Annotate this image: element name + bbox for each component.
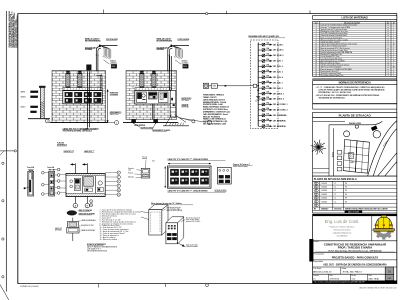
wall 1 secondary conduit <box>99 75 101 90</box>
main breaker on input <box>253 84 256 87</box>
svg-text:R4: R4 <box>315 198 317 200</box>
svg-text:AND2014-1534.03: AND2014-1534.03 <box>313 271 332 274</box>
breaker row 7 (CIR. TUG. 4) <box>258 74 284 79</box>
svg-text:CIR. TUE. 2: CIR. TUE. 2 <box>273 88 283 90</box>
svg-text:Escala:: Escala: <box>352 275 357 277</box>
svg-text:10: 10 <box>315 44 317 46</box>
normas text lines <box>315 86 385 99</box>
numero row divider <box>313 266 397 268</box>
svg-text:CIR. CHUV. 2: CIR. CHUV. 2 <box>273 99 284 101</box>
bundle label leader <box>175 60 181 64</box>
svg-text:LC: LC <box>334 201 336 203</box>
map top street lines <box>313 120 345 122</box>
svg-text:LOTE: LOTE <box>350 162 354 164</box>
svg-text:17: 17 <box>315 58 317 60</box>
logo vertical divider <box>371 216 373 241</box>
top fold tick 1 <box>103 10 105 14</box>
svg-text:ASS. DUT. - ENTRADA DE ENERG: ASS. DUT. - ENTRADA DE ENERGIA DA CONCES… <box>323 264 387 267</box>
svg-text:cadeado: cadeado <box>142 158 147 160</box>
massa de vedacao ellipse <box>67 211 77 216</box>
black side stripe <box>309 239 313 262</box>
svg-text:CIR. RESERVA: CIR. RESERVA <box>273 119 287 122</box>
svg-text:vb: vb <box>387 65 389 67</box>
ground tap from bus <box>257 87 259 97</box>
map small circle <box>355 125 358 128</box>
wall 2 mast base column <box>170 90 176 117</box>
svg-text:22: 22 <box>315 69 317 71</box>
caixa de passagem stack detail <box>72 218 74 241</box>
svg-text:PLANTA DE SITUACAO: PLANTA DE SITUACAO <box>339 113 372 117</box>
lista table outer box <box>313 21 397 76</box>
svg-text:UNID. REAL.: UNID. REAL. <box>368 278 380 281</box>
logo helmet gear (grey) <box>373 219 394 239</box>
svg-text:11: 11 <box>315 46 317 48</box>
revision banner row <box>313 209 397 211</box>
plan cut balloon B <box>85 203 89 207</box>
wall 2 base leader balloon <box>176 117 192 122</box>
section cap <box>39 86 45 88</box>
caixa externo left dim <box>164 166 166 187</box>
svg-text:LC: LC <box>334 183 336 185</box>
lista table rows <box>313 24 397 77</box>
svg-text:3x16mm: 3x16mm <box>182 61 189 63</box>
isometric box 1 hidden lines <box>151 211 160 213</box>
tampa detail slots (black) <box>219 175 224 178</box>
breaker row 16 (CIR. RESERVA) <box>258 123 286 128</box>
wall 1 bottom-right balloon <box>91 122 115 124</box>
wire drip loop bundle <box>173 46 175 57</box>
svg-text:CIR. CHUV. 1: CIR. CHUV. 1 <box>273 93 284 95</box>
svg-text:CIR. TUG. 1: CIR. TUG. 1 <box>273 61 283 63</box>
map north star / tree symbol <box>311 140 326 155</box>
attachment point (node) <box>170 45 172 47</box>
svg-text:23: 23 <box>315 71 317 73</box>
map building mark (black) <box>371 125 378 131</box>
planta de situacao header <box>313 112 397 117</box>
bundle label leader <box>104 60 110 64</box>
map roundabout circle 2 <box>373 131 380 138</box>
wall 2 mast base legs <box>166 115 172 126</box>
unifilar dashed enclosure <box>250 40 278 129</box>
svg-text:Tijolo macico comum 5x10x20cm: Tijolo macico comum 5x10x20cm <box>321 67 343 69</box>
service mast conduit <box>167 55 169 72</box>
plan comp 3 interior <box>98 181 102 185</box>
svg-text:CIR. ILUM. 1: CIR. ILUM. 1 <box>273 44 284 46</box>
svg-text:PROJETO BASICO - PARA CONS: PROJETO BASICO - PARA CONSULTA <box>332 256 379 260</box>
svg-text:1:50: 1:50 <box>352 279 356 281</box>
svg-text:2: 2 <box>47 121 48 123</box>
svg-text:CIR. RESERVA: CIR. RESERVA <box>273 125 287 128</box>
plan cut balloon A <box>73 203 77 207</box>
empty spacer box <box>313 104 397 109</box>
svg-text:CIR. TUE. 1: CIR. TUE. 1 <box>273 82 283 84</box>
svg-text:Dobradica: Dobradica <box>128 177 134 179</box>
wall 1 post caps <box>66 71 69 73</box>
svg-text:Parafuso: Parafuso <box>128 173 133 175</box>
caixa externo body <box>168 166 212 188</box>
map roundabout circle 1 <box>344 131 350 137</box>
isometric box 2 vent holes <box>168 225 170 226</box>
svg-text:(11) 4799-0000: (11) 4799-0000 <box>337 235 348 237</box>
plan right balloons <box>117 171 120 174</box>
svg-text:21: 21 <box>315 67 317 69</box>
wall 1 bottom-left balloon <box>45 119 49 123</box>
weatherhead (curved mast top) <box>168 47 173 57</box>
svg-text:kg: kg <box>387 62 389 64</box>
mureta section detail (corte) <box>39 87 41 119</box>
svg-text:Desenho:: Desenho: <box>313 275 320 277</box>
svg-text:CIR. ILUM. 3: CIR. ILUM. 3 <box>273 55 284 57</box>
svg-text:CIR. AR COND. 2: CIR. AR COND. 2 <box>273 109 288 112</box>
isometric box 2 <box>166 217 184 223</box>
cable tag <box>183 64 189 68</box>
plan view of caixas (top view) <box>66 174 105 197</box>
svg-text:CIR. TUG. 4: CIR. TUG. 4 <box>273 76 284 79</box>
wall 1 conduit below panel to ground <box>87 104 89 127</box>
map lot number boxes <box>337 151 342 155</box>
breaker row 9 (CIR. TUE. 2) <box>258 85 282 90</box>
plan compartment dividers <box>81 176 83 193</box>
wall 2 caixa middle compartment (barramento) <box>148 92 157 99</box>
wire to utility network <box>101 45 118 47</box>
map diagonal road bottom-right <box>378 153 397 176</box>
svg-text:R2: R2 <box>315 190 317 192</box>
tampa small detail left <box>141 168 150 178</box>
svg-text:CIR. TUG. 3: CIR. TUG. 3 <box>273 72 283 74</box>
wall 1 caixa window cells <box>65 92 73 97</box>
revision table columns <box>319 181 321 210</box>
binding hole 2 <box>2 200 4 202</box>
breaker row 4 (CIR. TUG. 1) <box>258 58 283 63</box>
svg-text:R6: R6 <box>315 205 317 207</box>
sheet edge line <box>5 11 7 292</box>
corte B-B dim arrows <box>28 169 34 171</box>
svg-text:27/07/2016: 27/07/2016 <box>330 279 339 281</box>
wall 1 caixa panel <box>63 91 103 104</box>
plan cut arrow B <box>86 163 88 203</box>
svg-text:PVC 32mm: PVC 32mm <box>182 100 190 102</box>
wall 2 embedded conduit post B <box>152 74 156 88</box>
svg-text:15: 15 <box>315 54 317 56</box>
svg-text:ELETRODUTO: ELETRODUTO <box>182 98 193 100</box>
svg-text:24: 24 <box>315 73 317 75</box>
folha grey box 005 <box>385 275 394 281</box>
wall 2 right downpipe hatch base <box>170 123 171 126</box>
svg-text:LC: LC <box>334 190 336 192</box>
wall 1 embedded conduit post A (hatched) <box>66 74 70 88</box>
revision rows <box>313 182 397 207</box>
service mast conduit <box>95 55 97 72</box>
breaker row 1 (CIR. ILUM. 1) <box>258 42 283 47</box>
left center fold mark <box>0 150 14 152</box>
svg-text:FORMATO A1 (594x841): FORMATO A1 (594x841) <box>20 285 39 288</box>
revision note row <box>313 206 397 208</box>
wall 1 embedded conduit post B (hatched) <box>78 74 82 88</box>
cable tag <box>111 64 117 68</box>
svg-text:12: 12 <box>315 48 317 50</box>
lista bottom spacer bar <box>313 78 397 81</box>
svg-text:10: 10 <box>393 60 395 62</box>
numbered legend list <box>100 209 141 241</box>
map block inner verticals <box>349 140 350 171</box>
svg-text:10/05/16: 10/05/16 <box>321 198 327 200</box>
svg-text:1: 1 <box>116 122 117 124</box>
breaker row 12 (CIR. AR COND. 1) <box>258 102 287 107</box>
corte A-A inner cells <box>50 174 53 178</box>
svg-text:10: 10 <box>118 190 120 192</box>
binding hole 4 <box>2 276 4 278</box>
corte B-B inner hatch strip <box>29 180 31 192</box>
lista column header row <box>313 23 397 25</box>
breaker row 10 (CIR. CHUV. 1) <box>258 91 284 96</box>
rotated margin notes <box>8 10 19 48</box>
wall detail 1 (brick elevation with caixas) <box>52 71 106 123</box>
breaker row 2 (CIR. ILUM. 2) <box>258 47 283 52</box>
isometric left side arrows <box>141 212 149 214</box>
svg-text:10/01/16: 10/01/16 <box>321 183 327 185</box>
plan cut arrow A <box>74 163 76 203</box>
wire drip loop bundle <box>102 46 104 57</box>
corte A-A balloons left <box>41 171 44 174</box>
normas text box <box>313 84 397 103</box>
svg-text:R0: R0 <box>315 183 317 185</box>
svg-text:caixa: caixa <box>128 169 131 171</box>
tampa detail top vents <box>219 169 221 171</box>
corte B-B box <box>28 171 34 196</box>
svg-text:13: 13 <box>315 50 317 52</box>
breaker row 14 (CIR. TORNEIRA) <box>258 112 287 117</box>
breaker row 5 (CIR. TUG. 2) <box>258 63 283 68</box>
svg-text:Tampa cx. N e Tampa cx. T: Tampa cx. N e Tampa cx. T <box>233 164 250 166</box>
breaker row 8 (CIR. TUE. 1) <box>258 80 282 85</box>
lista table column lines <box>319 21 321 76</box>
svg-text:20: 20 <box>315 65 317 67</box>
top fold tick 2 <box>225 11 227 14</box>
caixa externo inner frame <box>169 167 210 187</box>
wall 2 embedded conduit post A <box>140 74 144 88</box>
plan left leader lines <box>60 174 66 176</box>
wall 1 service conduit (vertical) <box>87 71 89 104</box>
breaker row 6 (CIR. TUG. 3) <box>258 69 283 74</box>
section ground line <box>28 118 50 120</box>
svg-text:R3: R3 <box>315 194 317 196</box>
svg-text:Cidade:: Cidade: <box>342 268 347 270</box>
folha grey box 01 <box>385 267 394 275</box>
revision table box <box>313 181 397 213</box>
svg-text:kWh: kWh <box>213 86 216 88</box>
breaker row 15 (CIR. RESERVA) <box>258 118 286 123</box>
map road connector top <box>372 121 382 125</box>
map block 1 lot lines <box>344 146 356 147</box>
map block 2 <box>355 141 369 173</box>
title block thick top bar <box>313 214 397 283</box>
svg-text:LISTA DE MATERIAIS: LISTA DE MATERIAIS <box>342 16 369 20</box>
wall 1 ground stub elbow <box>84 127 88 129</box>
medidor symbol M <box>203 83 208 88</box>
wall detail 2 (brick elevation, internal view) <box>126 71 177 120</box>
svg-text:CIR. TUG. 2: CIR. TUG. 2 <box>273 66 283 68</box>
top fold tick 3 <box>309 10 311 13</box>
desenho row divider <box>313 273 386 275</box>
wall 1 lintel band <box>63 88 102 91</box>
wire medidor to kwh <box>209 85 212 87</box>
wire to utility network <box>172 45 189 47</box>
isometric bottom arrow label <box>177 242 185 246</box>
corte A-A box <box>49 171 55 196</box>
top center fold circle <box>206 12 208 14</box>
wall 2 lintel band <box>135 88 171 91</box>
svg-text:Eng. Luis de Conti.: Eng. Luis de Conti. <box>325 219 360 224</box>
section ladder hatch <box>41 102 45 104</box>
lista de materiais header <box>313 16 397 20</box>
svg-text:+1x16mm: +1x16mm <box>110 62 118 64</box>
svg-text:REDE: REDE <box>183 66 187 68</box>
svg-text:Unid.:: Unid.: <box>368 275 372 277</box>
svg-text:LC: LC <box>334 187 336 189</box>
svg-text:Especialidade:: Especialidade: <box>314 261 324 263</box>
weatherhead (curved mast top) <box>96 47 101 57</box>
svg-text:LC: LC <box>334 198 336 200</box>
fase section divider <box>313 252 397 254</box>
section shelf bars <box>31 91 39 93</box>
svg-text:parafuso 3/16" (4 UNID.): parafuso 3/16" (4 UNID.) <box>186 221 201 223</box>
entrance-1 mast base label (black) <box>87 65 92 71</box>
bottom fold tick 1 <box>98 284 100 288</box>
wire kwh to quadro with arrow <box>217 85 252 87</box>
caixa externo dimension line <box>168 163 211 165</box>
planta sem escala header <box>313 176 397 181</box>
svg-text:PROP.: TARCISIO E MARIA: PROP.: TARCISIO E MARIA <box>338 246 372 250</box>
binding hole 1 <box>2 162 4 164</box>
bus input junction <box>257 85 259 87</box>
svg-text:CIR. ILUM. 2: CIR. ILUM. 2 <box>273 50 284 52</box>
svg-text:10: 10 <box>90 205 92 207</box>
map bottom-left street line <box>313 167 329 169</box>
corte A-A balloons right <box>57 168 60 171</box>
wall 2 post caps <box>140 71 143 73</box>
unifilar main bus <box>257 43 259 127</box>
svg-text:19: 19 <box>315 62 317 64</box>
svg-text:PLANTA DE SITUACAO SEM E: PLANTA DE SITUACAO SEM ESCALA <box>314 178 357 181</box>
wall 2 caixa right compartment (disjuntor) <box>159 92 168 103</box>
isometric box 2 slots (black) <box>167 233 171 236</box>
wall 2 bottom-right balloon <box>180 118 206 122</box>
binding hole 3 <box>2 238 4 240</box>
corte B-B balloon <box>24 187 26 189</box>
map lote hatch mark <box>349 153 354 159</box>
plan hatched top wall strip <box>66 174 105 176</box>
title block bottom black bar <box>313 281 397 284</box>
kWh meter box <box>211 84 217 88</box>
svg-text:LC: LC <box>334 194 336 196</box>
left margin inner line <box>17 14 19 284</box>
corte A-A dim arrows <box>49 169 55 171</box>
svg-text:180: 180 <box>393 67 395 69</box>
planta map box <box>313 118 397 177</box>
wall 2 service conduit vertical <box>169 56 171 90</box>
breaker row 3 (CIR. ILUM. 3) <box>258 53 283 58</box>
wall 2 caixa panel open <box>135 90 172 104</box>
svg-text:ESTA- SAO PAULO: ESTA- SAO PAULO <box>343 271 363 274</box>
map left street vertical <box>328 125 330 176</box>
bottom-left cut diagonal <box>0 285 9 300</box>
wall 2 conduit inside panel down <box>152 104 154 120</box>
svg-text:30: 30 <box>393 44 395 46</box>
legend balloons <box>90 200 93 203</box>
svg-text:CIR. AR COND. 1: CIR. AR COND. 1 <box>273 103 288 106</box>
svg-text:10/04/16: 10/04/16 <box>321 194 327 196</box>
svg-text:10/03/16: 10/03/16 <box>321 190 327 192</box>
normas de referencia header <box>313 81 397 85</box>
map diagonal road right <box>368 121 397 177</box>
especialidade divider <box>313 259 397 261</box>
plan comp 2 interior (X-hatched) <box>84 177 94 187</box>
ground symbol <box>256 95 260 97</box>
svg-text:11: 11 <box>118 194 120 196</box>
svg-text:16: 16 <box>315 56 317 58</box>
wall 1 ground line <box>50 122 109 124</box>
svg-text:10/02/16: 10/02/16 <box>321 187 327 189</box>
svg-text:3x16mm: 3x16mm <box>110 61 117 63</box>
svg-text:+1x16mm: +1x16mm <box>182 62 190 64</box>
svg-text:18: 18 <box>315 60 317 62</box>
wall 2 caixa left compartment (medidor) <box>137 92 147 103</box>
isometric box 1 <box>149 205 168 210</box>
svg-text:R5: R5 <box>315 201 317 203</box>
svg-text:14: 14 <box>315 52 317 54</box>
logo helmet (yellow hard hat) <box>373 215 395 231</box>
svg-text:25: 25 <box>315 75 317 77</box>
wall 2 bottom labels <box>133 122 135 124</box>
bottom center fold circle <box>206 284 209 287</box>
logo section divider <box>313 240 397 242</box>
svg-text:10/06/16: 10/06/16 <box>321 201 327 203</box>
breaker row 11 (CIR. CHUV. 2) <box>258 96 284 101</box>
wall 1 right dimension line <box>107 90 109 123</box>
attachment point (node) <box>99 45 101 47</box>
breaker row 13 (CIR. AR COND. 2) <box>258 107 287 112</box>
svg-text:ELETRODUTO PVC: ELETRODUTO PVC <box>81 225 94 227</box>
plan comp 1 interior <box>70 180 73 183</box>
svg-text:CIR. TORNEIRA: CIR. TORNEIRA <box>273 114 287 117</box>
map block 1 <box>343 140 357 173</box>
bottom fold tick 2 <box>165 284 167 287</box>
wall 2 anchor feet <box>132 119 136 122</box>
caixa externo window cells <box>170 169 178 175</box>
wall 2 ground line <box>123 122 178 124</box>
left fold diagonal <box>0 151 5 156</box>
svg-text:Un: Un <box>387 22 389 24</box>
svg-text:R1: R1 <box>315 187 317 189</box>
svg-text:REDE: REDE <box>112 66 116 68</box>
